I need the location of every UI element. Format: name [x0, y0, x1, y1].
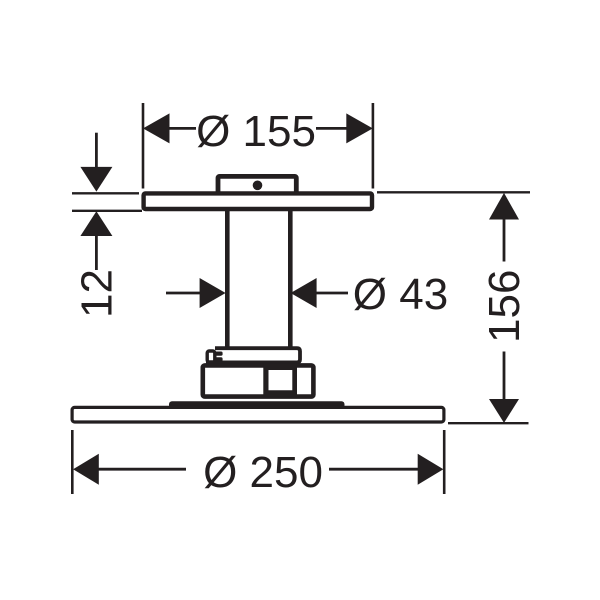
collar clip tongue lower	[215, 357, 223, 361]
collar clip ring	[207, 351, 215, 362]
dim 156 line lower	[503, 352, 506, 400]
dim O43 line left	[166, 292, 202, 295]
dim O43 line right	[316, 292, 348, 295]
dim O43 arrow left (pointing right)	[200, 278, 226, 308]
dim O250 arrow left	[73, 454, 99, 485]
dim 12 arrow up	[80, 211, 112, 236]
dim O250 line right segment	[329, 468, 419, 471]
svg-text:Ø 43: Ø 43	[353, 270, 448, 319]
dim 12 arrow down	[80, 167, 112, 192]
dim 156 arrow up	[489, 193, 519, 220]
svg-text:156: 156	[480, 270, 529, 343]
ceiling line left lower	[72, 210, 142, 212]
dim O43 arrow right (pointing left)	[291, 278, 317, 308]
base box	[203, 365, 314, 396]
collar	[206, 348, 300, 362]
mounting dot	[253, 181, 263, 191]
shower plate	[72, 407, 444, 422]
column left wall	[225, 210, 230, 349]
dim 156 arrow down	[489, 399, 519, 423]
column right wall	[288, 210, 293, 349]
top connection box	[218, 176, 296, 196]
cartridge box	[263, 364, 297, 396]
dim O155 extension line left	[142, 103, 145, 189]
dim O250 extension line right	[443, 430, 446, 494]
dim O155 line right segment	[316, 127, 348, 130]
dim O155 extension line right	[372, 103, 375, 189]
dim O250 line left segment	[97, 468, 186, 471]
dim 12 line upper	[95, 133, 98, 168]
dim 12 line lower	[95, 235, 98, 270]
ceiling line left upper	[72, 192, 139, 194]
ceiling plate	[144, 193, 372, 209]
svg-text:12: 12	[73, 269, 122, 318]
dim O155 line left segment	[168, 127, 196, 130]
dim O250 extension line left	[71, 430, 74, 494]
ceiling line right (156 top reference)	[377, 191, 530, 193]
dim O155 arrow right	[346, 113, 373, 143]
gasket strip	[169, 401, 345, 408]
collar clip tongue upper	[215, 352, 223, 356]
dim 156 line upper	[503, 217, 506, 262]
dim 156 extension line bottom	[448, 422, 529, 424]
svg-text:Ø 250: Ø 250	[203, 448, 323, 497]
dim O250 arrow right	[418, 454, 444, 485]
dim O155 arrow left	[143, 113, 170, 143]
svg-text:Ø 155: Ø 155	[196, 107, 316, 156]
